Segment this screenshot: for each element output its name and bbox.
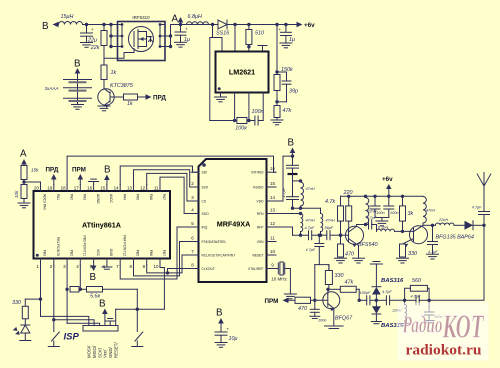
svg-text:470: 470 bbox=[298, 306, 307, 312]
MRF49XA pin 14 VDD bbox=[267, 200, 277, 202]
svg-text:100к: 100к bbox=[235, 126, 247, 132]
svg-text:A: A bbox=[172, 14, 179, 25]
capacitor C18 100n rx bbox=[428, 300, 430, 312]
ground under pa caps bbox=[375, 217, 389, 219]
svg-text:10k: 10k bbox=[14, 190, 19, 198]
capacitor C10 56pF bbox=[319, 234, 327, 236]
svg-text:330: 330 bbox=[335, 273, 344, 279]
svg-text:4.7μF: 4.7μF bbox=[282, 187, 286, 197]
ATtiny pin 5 VCC bbox=[93, 259, 95, 266]
net B arrow at pin 15 AVCC bbox=[104, 175, 110, 181]
crystal X1 10 MHz bbox=[276, 268, 278, 270]
ground under led bbox=[20, 340, 31, 342]
svg-text:1k: 1k bbox=[111, 70, 117, 76]
ground under C6 bbox=[215, 342, 227, 344]
wire reset net bbox=[136, 289, 138, 309]
ground under bfs emitter bbox=[357, 244, 358, 258]
svg-text:PA4: PA4 bbox=[122, 194, 126, 200]
svg-text:47k: 47k bbox=[345, 280, 354, 286]
svg-text:PB2: PB2 bbox=[69, 250, 73, 256]
inductor L9 22nH out bbox=[436, 223, 455, 225]
rf ic U4 MRF49XA box bbox=[199, 159, 267, 282]
svg-text:13: 13 bbox=[270, 208, 276, 213]
wire down to prm node bbox=[314, 265, 316, 301]
wire rail drop to LM2621 SW pin bbox=[234, 25, 236, 52]
capacitor C12 100n pa1 bbox=[374, 196, 376, 206]
inductor L2 6.8uH bbox=[187, 22, 209, 25]
svg-text:ADC0 PA0: ADC0 PA0 bbox=[43, 194, 47, 210]
svg-text:56pF: 56pF bbox=[325, 226, 334, 230]
svg-text:22k: 22k bbox=[90, 45, 100, 51]
IRF5310 mosfet circle bbox=[129, 27, 154, 52]
resistor R9 10k bbox=[21, 185, 27, 199]
svg-text:10: 10 bbox=[270, 249, 276, 254]
ground under BFQ67 emitter bbox=[333, 308, 335, 326]
ground under divider bbox=[18, 202, 30, 204]
svg-text:VDD: VDD bbox=[257, 199, 265, 203]
capacitor C14 4.7pF coupling bbox=[368, 220, 370, 229]
svg-text:ПРД: ПРД bbox=[46, 167, 59, 174]
MRF49XA pin 9 XTAL/REF bbox=[267, 268, 277, 270]
svg-text:100pF: 100pF bbox=[360, 291, 371, 295]
wire CLKOUT stub MRF pin8 bbox=[168, 269, 192, 273]
net PRD arrow right bbox=[146, 94, 152, 100]
svg-text:39p: 39p bbox=[289, 89, 298, 95]
svg-text:1k: 1k bbox=[127, 101, 133, 107]
resistor R8 15k bbox=[21, 166, 27, 180]
wire base line bbox=[311, 299, 328, 301]
ground up isp gnd pin bbox=[109, 321, 111, 326]
capacitor C13 100n pa2 bbox=[388, 196, 390, 206]
svg-text:VSN: VSN bbox=[257, 240, 264, 244]
MRF49XA pin 11 VSN bbox=[267, 241, 277, 243]
ground under S2 bbox=[132, 346, 143, 348]
svg-text:PA5: PA5 bbox=[136, 194, 140, 200]
wire rf mid tap bbox=[293, 180, 301, 182]
capacitor C20 100pF rx bbox=[370, 299, 377, 301]
svg-text:16: 16 bbox=[87, 186, 93, 191]
ground under crystal bbox=[284, 293, 296, 295]
capacitor C11 4.7pF down bbox=[318, 235, 320, 243]
svg-text:SDO: SDO bbox=[202, 212, 210, 216]
svg-text:PA3: PA3 bbox=[83, 194, 87, 200]
ground under C2 bbox=[175, 41, 187, 43]
capacitor C17 4.7pF rx trap bbox=[415, 296, 417, 305]
svg-text:В: В bbox=[288, 138, 295, 149]
wire pin10 reset bbox=[160, 265, 164, 309]
+6v arrow pa bbox=[388, 189, 390, 196]
net PRD arrow at pin 19 bbox=[51, 174, 57, 180]
svg-text:GND/: GND/ bbox=[108, 346, 113, 358]
wire output rail bbox=[235, 24, 297, 26]
inductor L3 47nH bbox=[301, 182, 304, 206]
wire divider to pin 20 bbox=[24, 182, 41, 191]
ATtiny pin 3 PB2 bbox=[66, 259, 68, 266]
resistor R5 47k bbox=[274, 106, 280, 118]
svg-text:RCLKOUT/FCAP/FINT: RCLKOUT/FCAP/FINT bbox=[202, 253, 236, 257]
capacitor C21 100n base bbox=[314, 300, 316, 309]
battery BT1 3xAAA bbox=[77, 80, 79, 105]
capacitor C5 1u output bbox=[285, 25, 287, 33]
svg-text:SCK/: SCK/ bbox=[97, 347, 102, 358]
svg-text:RESET: RESET bbox=[253, 253, 264, 257]
svg-text:IRF5310: IRF5310 bbox=[132, 15, 150, 20]
resistor R19 330 led bbox=[24, 299, 26, 306]
ground under battery bbox=[72, 104, 84, 106]
svg-text:KTC3875: KTC3875 bbox=[110, 83, 134, 89]
svg-text:XTAL/REF: XTAL/REF bbox=[248, 267, 264, 271]
svg-text:ПРМ: ПРМ bbox=[265, 298, 279, 305]
net B arrow down at pin 5 VCC bbox=[91, 266, 97, 272]
ATtiny pin 10 PB7 bbox=[159, 259, 161, 266]
svg-text:radiokot.ru: radiokot.ru bbox=[406, 343, 482, 359]
ATtiny pin 6 GND bbox=[106, 259, 108, 266]
svg-text:4.7pF: 4.7pF bbox=[305, 226, 315, 230]
wire RCLK pin9 to MRF pin7 bbox=[147, 255, 191, 273]
ground under C15 bbox=[427, 253, 439, 255]
svg-text:560: 560 bbox=[412, 278, 421, 284]
wire RFN to coils bbox=[276, 213, 301, 215]
svg-text:18: 18 bbox=[61, 186, 67, 191]
svg-text:4.7pF: 4.7pF bbox=[367, 216, 377, 220]
wire VDD to B node bbox=[276, 156, 293, 201]
wire collector to diode bbox=[423, 224, 436, 226]
transistor Q1 KTC3875 bbox=[98, 89, 114, 105]
inductor L10 22nH rx bbox=[404, 300, 406, 304]
svg-text:В: В bbox=[90, 272, 97, 283]
svg-text:47nH: 47nH bbox=[326, 219, 335, 223]
diode D4 BAS316 lower bbox=[375, 300, 377, 306]
svg-text:10 MHz: 10 MHz bbox=[271, 277, 287, 282]
svg-text:19: 19 bbox=[47, 186, 53, 191]
wire SPI SDI pin14 to MRF pin1 bbox=[120, 166, 198, 185]
svg-text:+6v: +6v bbox=[382, 176, 393, 183]
resistor R2 510 bbox=[248, 25, 250, 30]
svg-text:1μ: 1μ bbox=[289, 37, 295, 43]
ATtiny pin 11 PA7 bbox=[159, 185, 161, 192]
wire rf match line bbox=[293, 234, 309, 236]
svg-text:4.7pF: 4.7pF bbox=[382, 290, 392, 294]
transistor Q4 BFQ67 bbox=[323, 292, 340, 309]
resistor R7 1k base bbox=[110, 96, 124, 98]
diode D3 BAS316 upper bbox=[375, 295, 377, 301]
MRF49XA pin 1 SDI bbox=[191, 171, 199, 173]
wire antenna down to rx bbox=[429, 225, 484, 300]
MRF49XA pin 15 RSSIO bbox=[267, 186, 277, 188]
resistor R17 330 collector bbox=[325, 271, 332, 285]
svg-text:BFQ67: BFQ67 bbox=[335, 316, 353, 322]
ground under C1 bbox=[81, 42, 93, 44]
svg-text:22nH: 22nH bbox=[438, 218, 448, 222]
ATtiny pin 4 PB3 PCINT11 bbox=[79, 259, 81, 266]
ATtiny pin 20 ADC0 PA0 bbox=[40, 185, 42, 192]
svg-text:PB7: PB7 bbox=[162, 250, 166, 256]
svg-text:16: 16 bbox=[270, 166, 276, 171]
resistor R15 560 bbox=[427, 288, 429, 300]
ATtiny pin 17 PA3 bbox=[79, 185, 81, 192]
ATtiny pin 7 PB4 PCINT12 bbox=[119, 259, 121, 266]
capacitor C16 4.7pF antenna bbox=[479, 211, 490, 213]
svg-text:ПРД: ПРД bbox=[153, 95, 166, 102]
svg-text:10: 10 bbox=[153, 264, 159, 269]
svg-text:КОТ: КОТ bbox=[442, 309, 484, 346]
svg-text:15: 15 bbox=[100, 186, 106, 191]
wire pin1 to ISP MOSI bbox=[41, 316, 89, 325]
svg-text:8.2nH: 8.2nH bbox=[378, 226, 388, 230]
ATtiny pin 19 PA1 bbox=[53, 185, 55, 192]
resistor R3 100k bbox=[237, 118, 247, 124]
ground under 47k bbox=[271, 119, 283, 121]
svg-text:15k: 15k bbox=[31, 168, 39, 173]
svg-text:В: В bbox=[74, 59, 81, 70]
svg-text:510: 510 bbox=[255, 31, 264, 37]
svg-text:PB0: PB0 bbox=[43, 250, 47, 256]
capacitor C4 39p bbox=[277, 71, 287, 73]
MRF49XA pin 12 RFP bbox=[267, 226, 277, 228]
MRF49XA pin 2 SCK bbox=[191, 186, 199, 188]
transistor U IRF5310 package box bbox=[118, 22, 166, 61]
ground under C5 bbox=[280, 42, 292, 44]
inductor L1 15uH bbox=[59, 22, 83, 25]
svg-text:VCC: VCC bbox=[96, 249, 100, 257]
resistor R13 3k bbox=[402, 196, 404, 206]
capacitor C8 4.7uF rf bbox=[292, 168, 294, 174]
diode D1 SS16 bbox=[213, 24, 219, 26]
resistor R18 470 prm bbox=[295, 297, 311, 303]
svg-text:Vcc/: Vcc/ bbox=[103, 349, 108, 358]
ground up above BAS316 bbox=[370, 263, 382, 265]
svg-text:PB4 PCINT12: PB4 PCINT12 bbox=[122, 235, 126, 256]
resistor R4 150k bbox=[274, 75, 280, 91]
wire pin1 down bbox=[40, 265, 42, 316]
svg-text:220: 220 bbox=[343, 190, 353, 196]
resistor R14 330 bfg bbox=[400, 244, 406, 257]
wire rail to node A bbox=[171, 24, 213, 26]
resistor R11 220 bbox=[348, 196, 350, 206]
MRF49XA pin 5 IRQ bbox=[191, 226, 199, 228]
svg-text:SDI: SDI bbox=[202, 171, 208, 175]
svg-text:PA6: PA6 bbox=[149, 194, 153, 200]
svg-text:BFG135 BAP64: BFG135 BAP64 bbox=[436, 234, 474, 240]
svg-text:MOSI/: MOSI/ bbox=[87, 345, 92, 358]
MRF49XA pin 16 INT/INO bbox=[267, 171, 277, 173]
wire RFP branch bbox=[276, 227, 293, 235]
ground under Q1 bbox=[103, 105, 105, 106]
svg-text:В: В bbox=[216, 308, 223, 319]
svg-text:47nH: 47nH bbox=[426, 209, 435, 213]
wire SPI SCK pin13 to MRF pin2 bbox=[134, 170, 199, 187]
MRF49XA pin 8 CLKOUT bbox=[191, 268, 199, 270]
svg-text:17: 17 bbox=[74, 186, 80, 191]
inductor L5 47nH bbox=[320, 208, 322, 213]
svg-text:100n: 100n bbox=[318, 319, 326, 323]
transistor Q3 BFG135 bbox=[410, 226, 428, 244]
op-amp U2 LM2621 box bbox=[216, 52, 269, 93]
isp connector J1 bbox=[83, 326, 118, 332]
ATtiny pin 18 PA2 bbox=[66, 185, 68, 192]
capacitor C15 4.7uF out bbox=[432, 225, 434, 241]
svg-text:15: 15 bbox=[270, 181, 276, 186]
svg-text:INT/INO: INT/INO bbox=[251, 171, 264, 175]
wire LM2621 feedback rail bbox=[210, 38, 213, 121]
node line rf bbox=[291, 207, 294, 210]
LM2621 bottom pins bbox=[234, 93, 236, 121]
svg-text:AVCC: AVCC bbox=[109, 194, 113, 204]
svg-text:CS: CS bbox=[202, 199, 207, 203]
IRF5310 gate wire bbox=[104, 49, 134, 59]
capacitor C2 1u bbox=[180, 25, 182, 33]
diode D2 BAP64 bbox=[465, 221, 474, 230]
capacitor C6 10u electrolytic bbox=[215, 331, 227, 333]
svg-text:6.8μH: 6.8μH bbox=[188, 14, 202, 20]
wire IRQ pin7 to MRF pin5 bbox=[120, 227, 191, 279]
svg-text:14: 14 bbox=[114, 186, 120, 191]
LM2621 ground pin bbox=[220, 93, 222, 98]
led D5 bbox=[21, 325, 30, 333]
svg-text:ПРМ: ПРМ bbox=[72, 167, 86, 174]
svg-text:BAS316: BAS316 bbox=[381, 278, 404, 284]
switch S2 reset bbox=[136, 309, 138, 331]
svg-text:+: + bbox=[279, 27, 282, 32]
mcu U3 ATtiny861A box bbox=[34, 191, 171, 259]
svg-text:RESET/: RESET/ bbox=[113, 342, 118, 358]
ground under 330 bfg bbox=[397, 257, 409, 259]
IRF5310 right pin bus bbox=[170, 25, 172, 47]
wire bridge to 330 bbox=[319, 265, 329, 271]
wire +6v rail pa bbox=[341, 195, 424, 197]
ground up at pin 16 AGND bbox=[93, 182, 95, 185]
svg-text:PA1: PA1 bbox=[56, 194, 60, 200]
svg-text:+: + bbox=[227, 327, 230, 332]
svg-text:PA2: PA2 bbox=[69, 194, 73, 200]
svg-text:12: 12 bbox=[270, 221, 276, 226]
switch S1 bbox=[52, 332, 60, 341]
IRF5310 mosfet symbol bbox=[133, 32, 135, 47]
watermark background bbox=[398, 303, 489, 361]
svg-text:100n: 100n bbox=[252, 109, 264, 115]
wire pin2 to ISP MISO bbox=[54, 320, 94, 326]
MRF49XA pin 3 CS bbox=[191, 200, 199, 202]
resistor R20 reset a bbox=[70, 287, 79, 293]
svg-text:PB3 PCINT11: PB3 PCINT11 bbox=[83, 236, 87, 257]
ATtiny pin 16 AGND bbox=[93, 185, 95, 192]
svg-text:13: 13 bbox=[127, 186, 133, 191]
wire pin2 down switch bbox=[53, 265, 55, 332]
svg-text:В: В bbox=[104, 165, 111, 176]
svg-text:470: 470 bbox=[345, 252, 354, 258]
svg-text:ISP: ISP bbox=[64, 332, 80, 343]
inductor L4 47nH bbox=[301, 214, 303, 232]
ATtiny pin 13 PA5 bbox=[133, 185, 135, 192]
svg-text:10μ: 10μ bbox=[229, 336, 238, 342]
svg-text:В: В bbox=[99, 299, 106, 310]
resistor R6 1k bbox=[101, 65, 107, 80]
svg-text:Радио: Радио bbox=[402, 313, 443, 339]
ATtiny pin 2 PB1 PCINT9 bbox=[53, 259, 55, 266]
svg-text:4.7pF: 4.7pF bbox=[472, 206, 482, 210]
svg-text:4.7pF: 4.7pF bbox=[411, 295, 421, 299]
ATtiny pin 1 PB0 bbox=[40, 259, 42, 266]
svg-text:MRF49XA: MRF49XA bbox=[217, 220, 251, 229]
net PRM arrow left bbox=[283, 298, 289, 304]
MRF49XA pin 6 FSK/DATA/FSEL bbox=[191, 241, 199, 243]
svg-text:GND: GND bbox=[109, 249, 113, 257]
svg-text:SS16: SS16 bbox=[216, 31, 229, 37]
svg-text:RFN: RFN bbox=[257, 212, 264, 216]
wire 150k branch bbox=[276, 25, 278, 75]
svg-text:3k: 3k bbox=[408, 211, 414, 217]
ground under S1 bbox=[48, 346, 59, 348]
svg-text:PB1 PCINT9: PB1 PCINT9 bbox=[56, 237, 60, 256]
svg-text:11: 11 bbox=[270, 236, 275, 241]
svg-text:20: 20 bbox=[34, 186, 40, 191]
wire pin3 down bbox=[66, 265, 68, 323]
wire SPI SDO pin11 to MRF pin4 bbox=[160, 177, 191, 213]
svg-text:11: 11 bbox=[154, 186, 159, 191]
transistor Q2 BFS540 bbox=[346, 226, 364, 244]
wire collector node bbox=[357, 225, 369, 227]
wire VIN to LM2621 bbox=[213, 25, 223, 52]
wire SPI CS pin12 to MRF pin3 bbox=[147, 173, 199, 201]
wire pin4 down bbox=[79, 265, 81, 289]
antenna bbox=[477, 174, 484, 186]
svg-text:PB6: PB6 bbox=[149, 250, 153, 256]
svg-text:RSSIO: RSSIO bbox=[253, 185, 264, 189]
svg-text:4.7pF: 4.7pF bbox=[306, 248, 316, 252]
svg-text:330: 330 bbox=[12, 300, 21, 306]
ATtiny pin 12 PA6 bbox=[146, 185, 148, 192]
svg-text:330: 330 bbox=[408, 251, 417, 257]
wire top rail left bbox=[83, 24, 118, 26]
svg-text:+: + bbox=[185, 27, 188, 32]
svg-text:3xAAA: 3xAAA bbox=[45, 86, 59, 91]
ground under 470 bbox=[335, 257, 347, 259]
capacitor C7 100n rf bbox=[292, 156, 294, 165]
svg-text:MISO/: MISO/ bbox=[92, 345, 97, 358]
wire FSK pin8 to MRF pin6 bbox=[134, 242, 192, 276]
wire pin3 to ISP SCK bbox=[67, 323, 100, 325]
svg-text:4.7k: 4.7k bbox=[325, 199, 335, 205]
MRF49XA pin 13 RFN bbox=[267, 213, 277, 215]
svg-text:+: + bbox=[91, 27, 94, 32]
inductor L6 22nH collector bbox=[366, 198, 369, 224]
inductor L8 47nH choke bbox=[423, 197, 426, 224]
svg-text:IRQ: IRQ bbox=[202, 225, 208, 229]
svg-text:BFS540: BFS540 bbox=[358, 242, 377, 248]
MRF49XA pin 4 SDO bbox=[191, 213, 199, 215]
ATtiny pin 9 PB6 bbox=[146, 259, 148, 266]
svg-text:A: A bbox=[20, 149, 27, 160]
svg-text:12: 12 bbox=[140, 186, 146, 191]
svg-text:100n: 100n bbox=[376, 211, 384, 215]
svg-text:100n: 100n bbox=[390, 211, 398, 215]
ATtiny pin 15 AVCC bbox=[106, 185, 108, 192]
svg-text:LM2621: LM2621 bbox=[229, 68, 255, 77]
ATtiny pin 8 PB5 bbox=[133, 259, 135, 266]
MRF49XA pin 7 RCLKOUT/FCAP/FINT bbox=[191, 254, 199, 256]
svg-text:RFP: RFP bbox=[257, 225, 264, 229]
svg-text:PA7: PA7 bbox=[162, 194, 166, 200]
svg-text:FSK/DATA/FSEL: FSK/DATA/FSEL bbox=[202, 240, 227, 244]
svg-text:PB5: PB5 bbox=[136, 250, 140, 256]
svg-text:47nH: 47nH bbox=[306, 219, 315, 223]
capacitor C3 100n bbox=[254, 116, 256, 125]
svg-text:4.7μF: 4.7μF bbox=[428, 250, 438, 254]
net PRM arrow at pin 17 bbox=[78, 174, 84, 180]
resistor R21 5.6k reset bbox=[80, 288, 86, 290]
svg-text:47k: 47k bbox=[283, 108, 292, 114]
+6v arrow label bbox=[297, 22, 303, 28]
